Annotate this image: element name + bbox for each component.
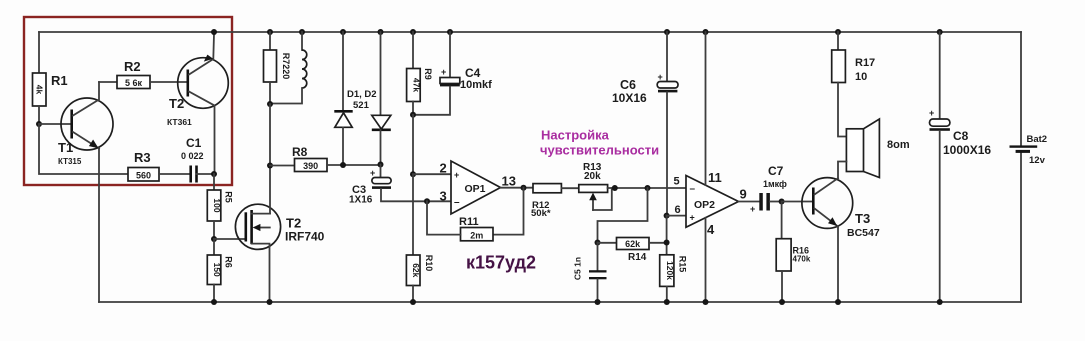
junction pin5 branch node [645, 185, 651, 191]
wire pin 11 from top rail [705, 32, 707, 185]
svg-text:–: – [690, 184, 696, 195]
junction T3 emitter on ground rail [835, 299, 841, 305]
svg-text:КТ361: КТ361 [167, 117, 192, 127]
svg-text:КТ315: КТ315 [58, 157, 82, 166]
wire base node down to R16 [781, 202, 783, 239]
wire right edge (battery branch) [1020, 32, 1022, 302]
wire R2 to T2 base [150, 81, 186, 83]
svg-text:2: 2 [440, 161, 447, 176]
wire OP1 output [501, 187, 534, 189]
svg-text:62k: 62k [625, 239, 641, 249]
svg-text:R10: R10 [424, 255, 434, 272]
svg-text:10: 10 [855, 71, 867, 83]
junction T2 emitter on top rail [211, 29, 217, 35]
svg-text:+: + [441, 67, 446, 77]
wire node A down to R3 row [39, 124, 128, 174]
wire R3 to C1 [159, 173, 190, 175]
svg-text:1000X16: 1000X16 [943, 143, 991, 157]
svg-text:100: 100 [212, 198, 222, 212]
wire top rail to R17 [837, 32, 839, 50]
svg-text:20k: 20k [584, 171, 601, 182]
junction C4 on top rail [447, 29, 453, 35]
capacitor C6 10X16 [612, 32, 678, 105]
svg-text:R15: R15 [678, 256, 688, 273]
svg-text:C8: C8 [953, 129, 969, 143]
diode D1 [334, 32, 376, 165]
svg-text:C7: C7 [768, 164, 784, 178]
svg-text:+: + [658, 72, 663, 82]
node C junction (R7 / L1 / drain column) [267, 101, 273, 107]
junction pin6 node [664, 213, 670, 219]
highlight box (dark red annotation rectangle) [24, 17, 232, 185]
wire R12 to R13 [561, 187, 578, 189]
svg-text:3: 3 [440, 189, 447, 204]
svg-text:IRF740: IRF740 [285, 230, 325, 244]
wire pin 4 to ground rail [705, 218, 707, 302]
svg-text:+: + [750, 204, 755, 214]
junction D2 / C3 branch [378, 162, 384, 168]
wire top supply rail [39, 31, 1021, 33]
wire R15 to ground rail [666, 286, 668, 302]
resistor R14 62k [598, 238, 667, 264]
svg-text:10mkf: 10mkf [460, 79, 492, 91]
junction R16 on ground rail [779, 299, 785, 305]
junction R6 on ground rail [211, 299, 217, 305]
junction MOSFET source on ground rail [267, 299, 273, 305]
junction R10 on ground rail [410, 299, 416, 305]
svg-text:Bat2: Bat2 [1027, 134, 1048, 145]
svg-text:R3: R3 [134, 150, 151, 165]
battery Bat2 12v [1010, 134, 1048, 166]
wire R6 to ground rail [213, 285, 215, 303]
svg-text:11: 11 [708, 170, 722, 185]
resistor R17 10 [832, 50, 875, 83]
wire feedback loop left leg [427, 201, 461, 234]
node D junction (drain column / R8) [267, 163, 273, 169]
wire R8 to D1/D2 row [327, 164, 381, 166]
wire C1 to node B [197, 173, 215, 175]
junction R7 on top rail [267, 29, 273, 35]
svg-text:5: 5 [674, 176, 680, 188]
svg-text:10X16: 10X16 [612, 91, 647, 105]
junction D1 on top rail [340, 29, 346, 35]
inductor L1 [271, 32, 307, 104]
wire pin5 node to R14 left node [598, 188, 648, 243]
wire C7 to base node [770, 201, 782, 203]
wire T2 collector down to node B [214, 106, 216, 175]
svg-text:5 6к: 5 6к [125, 78, 143, 88]
gate node junction (R5 / R6 / T2 gate) [211, 236, 217, 242]
svg-text:4: 4 [707, 222, 715, 237]
svg-text:R1: R1 [51, 73, 68, 88]
junction OP1 output node [521, 185, 527, 191]
op-amp OP1 [440, 161, 516, 215]
wire feedback loop right leg [493, 188, 524, 235]
junction R9 on top rail [410, 29, 416, 35]
resistor R6 150 [207, 255, 233, 285]
svg-text:+: + [370, 168, 375, 178]
svg-text:чувствительности: чувствительности [540, 143, 659, 158]
potentiometer R13 20k [579, 162, 612, 210]
wire C3 to OP1 pin3 row [381, 189, 451, 201]
svg-text:C1: C1 [186, 136, 202, 150]
wire T1 emitter to ground rail [98, 149, 100, 303]
diode D2 [372, 32, 391, 165]
wire gate node to R6 [213, 239, 215, 255]
svg-text:13: 13 [502, 174, 516, 189]
capacitor C4 10mkf [440, 32, 492, 91]
svg-text:47k: 47k [411, 78, 421, 92]
wire C4 to node E [413, 87, 450, 115]
svg-text:9: 9 [740, 187, 747, 202]
resistor R8 390 [292, 145, 327, 172]
wire node E to pin2 node [412, 115, 414, 174]
wire top rail to R9 [412, 32, 414, 69]
wire R7 to node C [269, 82, 271, 104]
wire pin6 node down to R15 [666, 216, 668, 255]
resistor R5 100 [207, 190, 233, 221]
resistor R12 50k* [531, 184, 561, 219]
svg-text:R14: R14 [628, 252, 647, 263]
svg-text:8om: 8om [887, 139, 910, 151]
capacitor C8 1000X16 [929, 32, 991, 157]
svg-text:OP1: OP1 [465, 183, 486, 195]
svg-text:BC547: BC547 [847, 227, 880, 239]
svg-text:6: 6 [675, 204, 681, 216]
wire R17 to speaker top terminal [838, 83, 846, 137]
node A junction (R1 / T1 base / R3 branch) [36, 121, 42, 127]
wire T3 emitter to ground rail [837, 227, 839, 303]
junction OP2 pin11 on top rail [703, 29, 709, 35]
svg-text:12v: 12v [1029, 155, 1046, 166]
wire node A to T1 base [39, 123, 70, 125]
wire T1 collector to R2 [99, 81, 117, 83]
svg-text:1мкф: 1мкф [763, 179, 787, 189]
svg-text:R7220: R7220 [281, 53, 291, 80]
junction R15 on ground rail [664, 299, 670, 305]
svg-text:–: – [454, 197, 460, 208]
wire R1 bottom to node A [38, 106, 40, 124]
svg-text:470k: 470k [793, 255, 811, 264]
wire base node to T3 base [782, 201, 812, 203]
capacitor C1 0.022 [181, 136, 204, 183]
svg-text:2m: 2m [470, 230, 483, 240]
svg-text:Настройка: Настройка [541, 128, 610, 143]
svg-text:C4: C4 [465, 66, 481, 80]
label Настройка чувствительности [540, 128, 659, 158]
svg-text:R8: R8 [292, 145, 308, 159]
wire C8 to ground rail [939, 131, 941, 302]
svg-text:1X16: 1X16 [349, 195, 373, 206]
svg-text:390: 390 [303, 161, 318, 171]
svg-text:521: 521 [353, 100, 370, 111]
speaker 8om [846, 119, 909, 178]
svg-text:R6: R6 [224, 256, 234, 268]
wire speaker bottom terminal to T3 collector [838, 162, 846, 179]
svg-text:D1, D2: D1, D2 [347, 89, 377, 100]
svg-text:C5 1n: C5 1n [573, 257, 583, 280]
junction C8 on top rail [937, 29, 943, 35]
wire gate node to MOSFET gate [214, 238, 246, 240]
svg-text:0 022: 0 022 [181, 151, 204, 161]
wire bottom ground rail [99, 301, 1021, 303]
capacitor C3 1X16 [349, 165, 391, 206]
junction C5 on ground rail [595, 299, 601, 305]
svg-text:150: 150 [212, 263, 222, 277]
node E junction (R9 / C4 / pin2 column) [410, 112, 416, 118]
wire R5 to gate node [213, 221, 215, 239]
svg-text:120k: 120k [665, 261, 675, 280]
junction inductor on top rail [299, 29, 305, 35]
wire node C down to MOSFET drain [269, 104, 271, 214]
svg-text:+: + [454, 170, 459, 180]
resistor R10 62k [406, 255, 434, 286]
svg-text:T3: T3 [855, 211, 870, 226]
resistor R2 5.6k [117, 59, 150, 89]
svg-text:50k*: 50k* [531, 208, 551, 219]
junction R13 wiper node [612, 185, 618, 191]
base node junction (C7 / R16 / T3 base) [779, 199, 785, 205]
op-amp OP2 [674, 170, 747, 237]
svg-text:T2: T2 [169, 96, 184, 111]
svg-text:R9: R9 [423, 68, 433, 80]
junction OP2 pin4 on ground rail [703, 299, 709, 305]
junction C6 on top rail [664, 29, 670, 35]
wire R10 to ground rail [412, 286, 414, 303]
wire C6 down to pin6 node [666, 92, 668, 215]
resistor R16 470k [776, 239, 811, 271]
resistor R9 47k [407, 68, 433, 101]
svg-text:к157уд2: к157уд2 [466, 253, 536, 273]
transistor T3 BC547 [802, 178, 880, 239]
svg-text:R5: R5 [224, 191, 234, 203]
capacitor C7 1mkf [750, 164, 787, 214]
svg-text:R11: R11 [459, 216, 479, 228]
resistor R7 220 [264, 50, 292, 82]
junction D1 anode [340, 162, 346, 168]
svg-text:+: + [929, 108, 934, 118]
wire pin2 node down to R10 [412, 174, 414, 255]
svg-text:T1: T1 [58, 140, 73, 155]
resistor R15 120k [660, 255, 688, 287]
svg-text:OP2: OP2 [694, 199, 715, 211]
pin2 node junction [410, 171, 416, 177]
wire pin 2 stub into OP1 [413, 173, 451, 175]
junction OP1 pin3 / feedback [424, 198, 430, 204]
junction C8 on ground rail [937, 299, 943, 305]
svg-text:62k: 62k [411, 263, 421, 277]
wire R13 to OP2 pin5 [608, 187, 686, 189]
svg-text:560: 560 [136, 171, 151, 181]
junction D2 on top rail [378, 29, 384, 35]
wire node B to R5 [213, 174, 215, 190]
node B junction (T2 collector / C1 / R5) [211, 171, 217, 177]
wire R9 to node E [412, 102, 414, 115]
svg-text:R17: R17 [855, 57, 875, 69]
junction R17 on top rail [835, 29, 841, 35]
svg-text:R2: R2 [124, 59, 141, 74]
wire R16 to ground rail [781, 271, 783, 302]
resistor R11 2m [459, 216, 493, 241]
wire pin6 stub into OP2 [667, 215, 686, 217]
junction R14 right node [664, 240, 670, 246]
capacitor C5 1n [573, 243, 607, 303]
wire top rail to R1 [38, 32, 40, 73]
resistor R1 [33, 73, 68, 106]
svg-text:4k: 4k [35, 85, 45, 95]
node F junction (C5 / R14 left) [595, 240, 601, 246]
svg-text:C6: C6 [620, 78, 636, 92]
MOSFET T2 IRF740 [235, 204, 324, 302]
transistor T2 KT361 [167, 34, 228, 127]
transistor T1 KT315 [58, 82, 113, 166]
svg-text:T2: T2 [286, 216, 301, 231]
wire OP2 output to C7 [739, 201, 760, 203]
wire node D to R8 [270, 165, 295, 167]
resistor R3 560 [128, 150, 159, 181]
svg-text:+: + [690, 213, 695, 223]
wire top rail to R7 [269, 32, 271, 50]
